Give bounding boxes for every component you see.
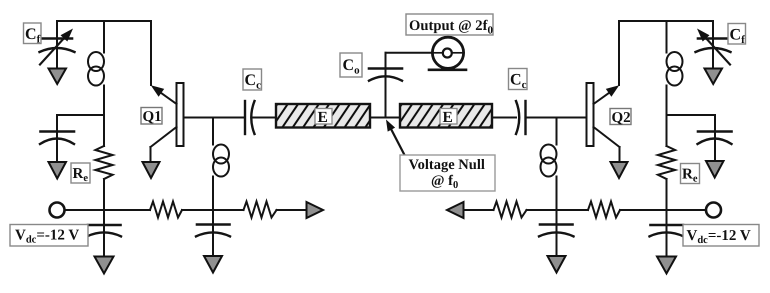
terminal Vdc right xyxy=(706,203,721,218)
wire Cf right drop xyxy=(712,21,714,44)
ground (Q1 collector) xyxy=(143,162,160,178)
resistor bias R2 right xyxy=(494,202,527,218)
ground (Q2 collector) xyxy=(611,162,628,178)
label Cc left xyxy=(243,69,262,92)
svg-text:Vdc=-12 V: Vdc=-12 V xyxy=(15,228,79,246)
svg-text:E: E xyxy=(443,109,453,126)
svg-text:Q2: Q2 xyxy=(612,110,631,126)
inductor L1 (left rail choke) xyxy=(88,21,104,146)
label Cf left xyxy=(24,23,42,46)
wire Q1 emitter drop xyxy=(150,21,152,85)
node voltage null arrow xyxy=(386,120,404,155)
wire top rail left xyxy=(57,20,151,22)
wire Re right to bias rail xyxy=(666,179,668,257)
ground (left bias outer) xyxy=(95,257,114,274)
ground (below right bypass cap) xyxy=(706,161,724,178)
ground (below Cf left) xyxy=(49,44,67,84)
transistor Q1 xyxy=(151,83,184,162)
inductor L3 (right base choke) xyxy=(541,145,557,257)
wire Co to output connector xyxy=(386,52,433,54)
wire xyxy=(527,209,589,211)
label Vdc left xyxy=(10,225,88,247)
svg-text:Output @ 2f0: Output @ 2f0 xyxy=(409,18,493,37)
resistor bias R1 right xyxy=(588,202,620,218)
resistor Re right xyxy=(658,146,675,179)
ground (below left bypass cap) xyxy=(49,162,67,179)
inductor L4 (right rail choke) xyxy=(667,21,683,146)
output connector (coax symbol) xyxy=(429,37,466,70)
svg-text:E: E xyxy=(318,109,328,126)
svg-text:Voltage Null: Voltage Null xyxy=(409,157,485,173)
wire Cc to TL1 xyxy=(252,117,276,119)
wire branch to bypass cap left xyxy=(57,114,104,116)
ground (right bias inner) xyxy=(548,256,566,273)
resistor bias R1 left xyxy=(150,202,182,218)
capacitor bypass (left emitter) xyxy=(40,132,74,145)
label Re left xyxy=(71,163,90,184)
label Cf right xyxy=(728,24,746,47)
transmission line E (right) xyxy=(400,104,492,128)
wire TL1 to TL2 xyxy=(370,117,400,119)
label Output @ 2fo xyxy=(406,14,493,37)
label Vdc right xyxy=(683,225,759,247)
svg-text:Vdc=-12 V: Vdc=-12 V xyxy=(687,228,751,246)
inductor L2 (left base choke) xyxy=(213,145,229,257)
label Q1 xyxy=(141,108,162,126)
label Re right xyxy=(681,164,700,185)
ground (below Cf right) xyxy=(705,44,723,84)
capacitor bypass (left bias, outer) xyxy=(87,225,121,236)
capacitor Cf (right, variable) xyxy=(696,29,732,65)
label Voltage Null @ fo xyxy=(400,155,495,191)
capacitor bypass (right emitter) xyxy=(698,132,732,145)
terminal Vdc left xyxy=(50,203,65,218)
label Co xyxy=(340,53,362,77)
node center junction / wire Co drop xyxy=(385,53,387,118)
transmission line E (left) xyxy=(276,104,370,128)
wire Q2 base xyxy=(526,117,587,119)
capacitor bypass (right bias, inner) xyxy=(539,225,574,237)
capacitor bypass (left bias, inner) xyxy=(196,225,230,237)
capacitor bypass (right bias, outer) xyxy=(650,225,684,236)
wire TL2 to Cc right xyxy=(492,117,516,119)
transistor Q2 xyxy=(587,83,620,162)
wire Q1 base xyxy=(184,117,246,119)
wire inner column left xyxy=(212,118,214,145)
svg-text:Q1: Q1 xyxy=(143,109,162,125)
arrow (left bias rail, to gate line) xyxy=(307,202,324,218)
wire branch to bypass cap right xyxy=(667,114,716,116)
wire Cf left drop xyxy=(56,21,58,44)
wire Q2 emitter drop xyxy=(618,21,620,85)
wire xyxy=(620,209,706,211)
wire xyxy=(182,209,244,211)
ground (left bias inner) xyxy=(204,256,222,273)
label Q2 xyxy=(610,109,631,127)
capacitor Cc left xyxy=(245,101,255,134)
capacitor Co xyxy=(369,69,402,81)
wire xyxy=(277,209,307,211)
resistor bias R2 left xyxy=(244,202,277,218)
wire bias rail right xyxy=(464,209,494,211)
ground (right bias outer) xyxy=(657,257,676,274)
capacitor Cc right xyxy=(516,101,526,134)
wire inner column right xyxy=(556,118,558,145)
resistor Re left xyxy=(95,146,112,179)
capacitor Cf (left, variable) xyxy=(39,29,75,65)
label Cc right xyxy=(509,69,528,92)
wire Re to bias rail and bypass xyxy=(103,179,105,257)
wire top rail right xyxy=(619,20,713,22)
arrow (right bias rail, to gate line) xyxy=(447,202,464,218)
wire bias rail left xyxy=(65,209,151,211)
